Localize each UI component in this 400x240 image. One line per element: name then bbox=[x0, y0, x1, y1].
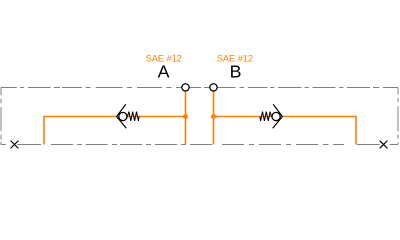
svg-text:A: A bbox=[158, 62, 170, 82]
wire: right vertical drop bbox=[355, 116, 357, 145]
port B circle bbox=[210, 84, 217, 91]
plug X right bbox=[380, 141, 388, 149]
wire: left vertical drop bbox=[43, 116, 45, 145]
plug X left bbox=[11, 141, 19, 149]
junction node B bbox=[211, 114, 216, 119]
wire: from CV1 ball to node A bbox=[127, 116, 185, 118]
junction node A bbox=[183, 114, 188, 119]
enclosure boundary (dash-dot manifold outline) bbox=[1, 88, 398, 145]
check valve CV2 (free flow left-to-right) bbox=[260, 104, 283, 128]
wire: left horizontal segment bbox=[44, 116, 116, 118]
wire: port B vertical bbox=[213, 91, 215, 145]
svg-text:B: B bbox=[230, 62, 242, 82]
wire: port A vertical bbox=[185, 91, 187, 145]
port A circle bbox=[182, 84, 189, 91]
wire: right horizontal segment bbox=[283, 116, 356, 118]
wire: from node B to CV2 ball bbox=[214, 116, 272, 118]
check valve CV1 (free flow right-to-left) bbox=[117, 104, 140, 128]
